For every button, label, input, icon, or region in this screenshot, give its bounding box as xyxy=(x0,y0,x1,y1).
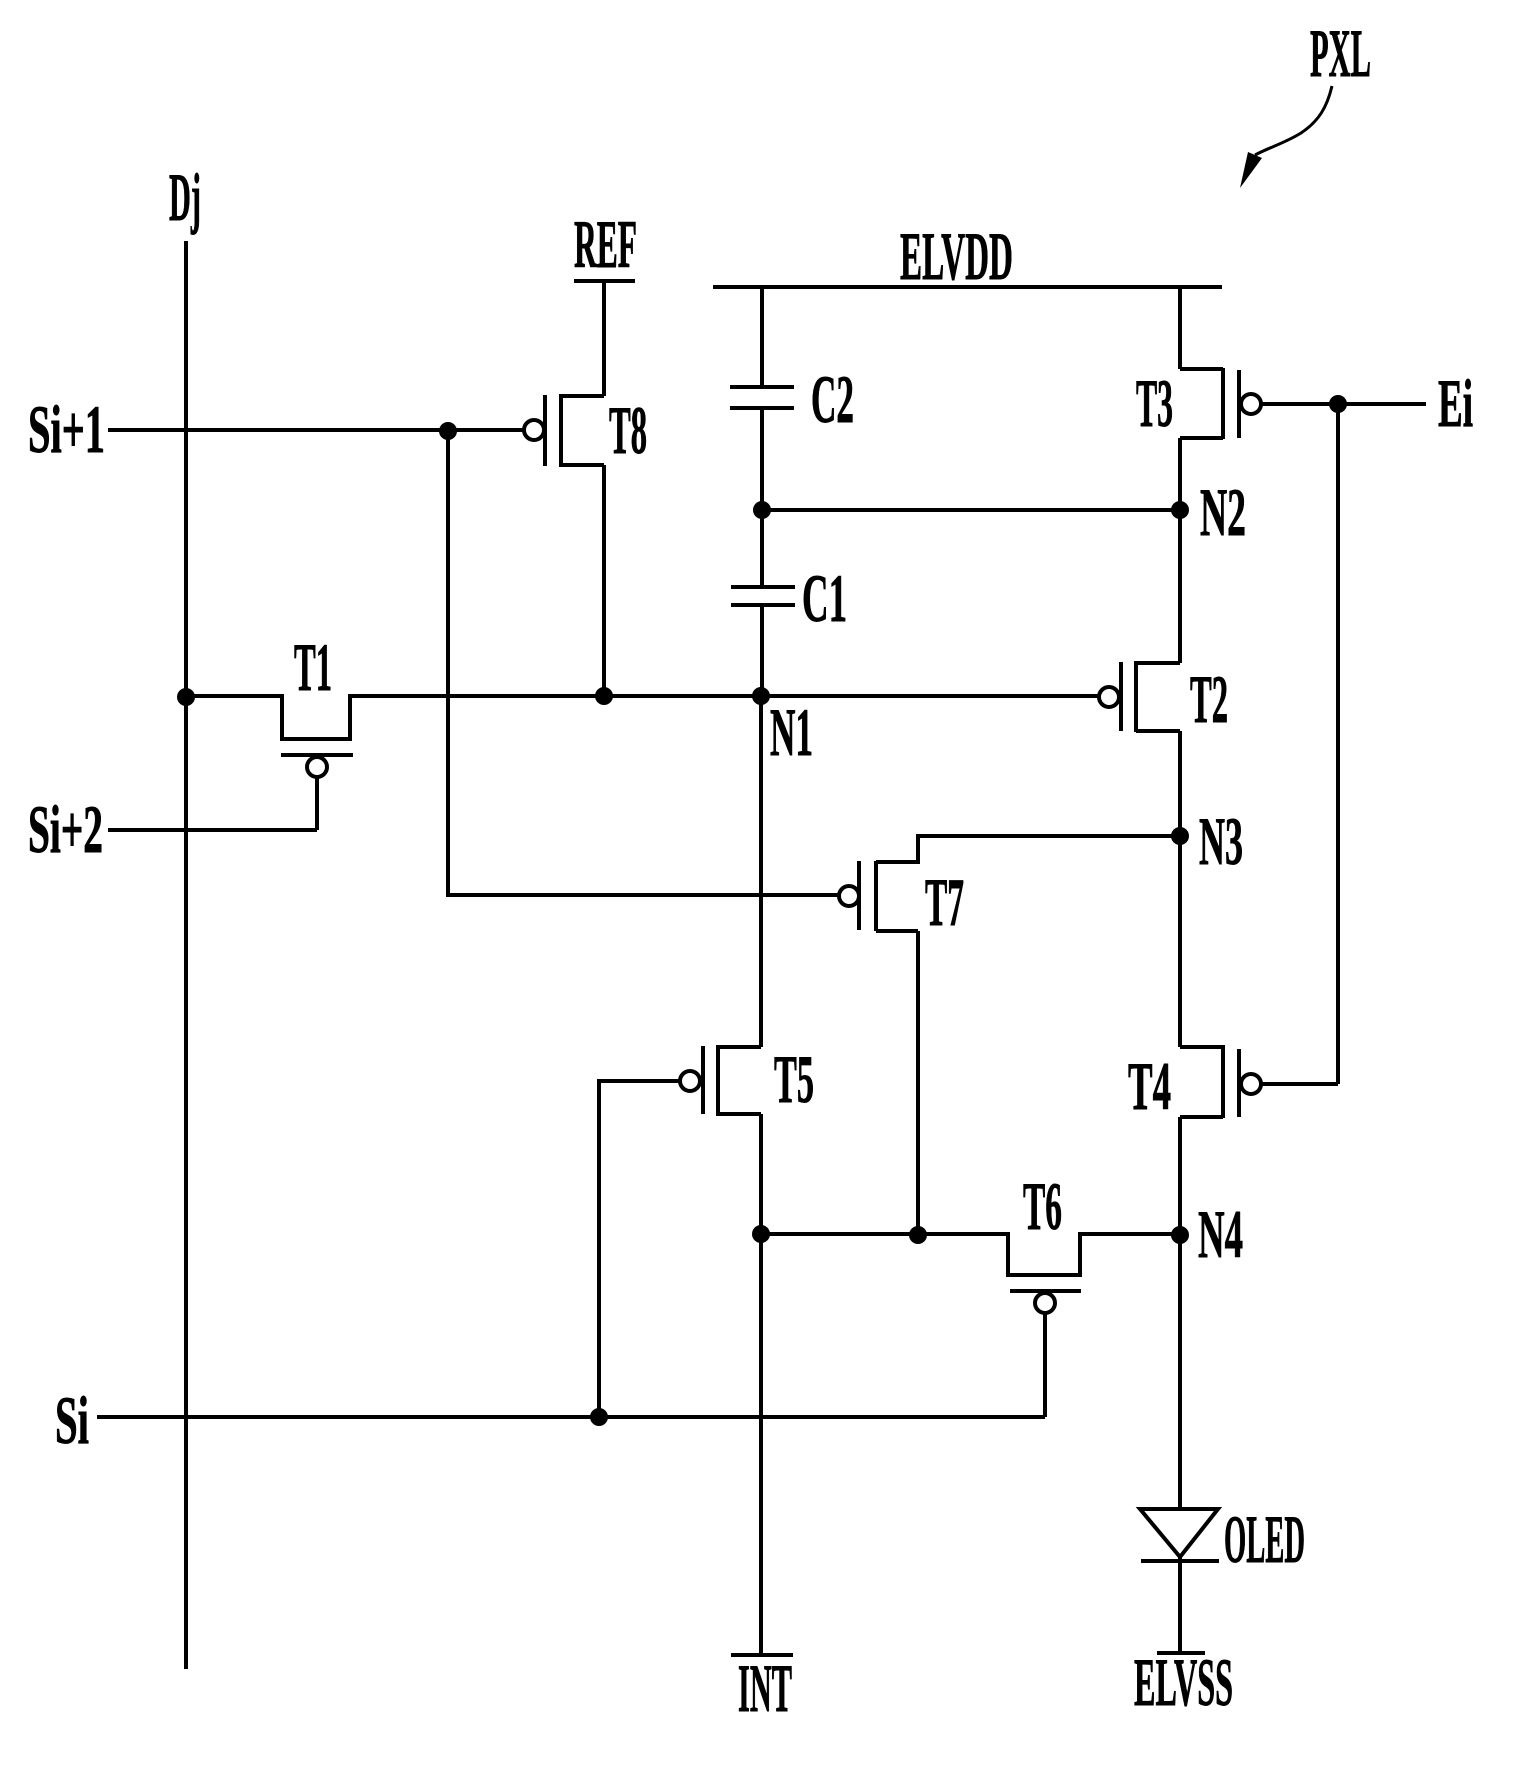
svg-text:T3: T3 xyxy=(1136,365,1173,441)
svg-text:T2: T2 xyxy=(1190,661,1228,737)
svg-text:C1: C1 xyxy=(802,560,847,636)
svg-text:N2: N2 xyxy=(1200,474,1246,550)
svg-text:N4: N4 xyxy=(1198,1196,1243,1272)
svg-text:T8: T8 xyxy=(609,392,647,468)
svg-text:C2: C2 xyxy=(811,361,854,437)
svg-text:Si+1: Si+1 xyxy=(28,391,105,467)
svg-text:T5: T5 xyxy=(774,1041,814,1117)
svg-text:ELVSS: ELVSS xyxy=(1134,1644,1233,1720)
svg-text:Dj: Dj xyxy=(169,159,201,235)
svg-text:T7: T7 xyxy=(925,864,964,940)
svg-text:PXL: PXL xyxy=(1310,15,1371,91)
svg-text:Si: Si xyxy=(55,1382,89,1458)
svg-text:T1: T1 xyxy=(294,629,332,705)
svg-text:REF: REF xyxy=(574,206,637,282)
svg-text:ELVDD: ELVDD xyxy=(900,218,1013,294)
svg-text:T6: T6 xyxy=(1023,1168,1062,1244)
svg-text:N3: N3 xyxy=(1199,803,1243,879)
svg-text:T4: T4 xyxy=(1128,1048,1171,1124)
svg-text:Ei: Ei xyxy=(1438,365,1473,441)
svg-text:INT: INT xyxy=(738,1650,792,1726)
svg-text:OLED: OLED xyxy=(1224,1501,1305,1577)
svg-text:Si+2: Si+2 xyxy=(28,791,103,867)
svg-text:N1: N1 xyxy=(770,694,813,770)
